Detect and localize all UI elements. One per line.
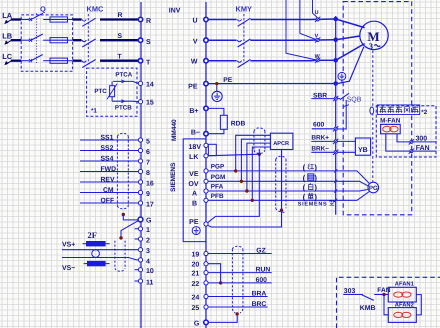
svg-text:SS1: SS1: [101, 135, 114, 142]
svg-text:LC: LC: [2, 52, 13, 61]
svg-text:19: 19: [192, 252, 200, 259]
svg-text:SBR: SBR: [313, 92, 327, 99]
svg-text:OV: OV: [188, 181, 198, 188]
svg-text:7: 7: [146, 159, 150, 166]
svg-text:PE: PE: [188, 84, 198, 91]
svg-text:2F: 2F: [88, 230, 97, 240]
svg-text:AFAN2: AFAN2: [395, 302, 414, 309]
svg-text:G: G: [146, 217, 152, 224]
svg-text:BRK+: BRK+: [311, 135, 329, 142]
svg-text:FAN: FAN: [377, 287, 390, 294]
svg-text:18V: 18V: [189, 144, 202, 151]
svg-text:): ): [314, 173, 317, 182]
svg-text:INV: INV: [169, 7, 181, 14]
svg-text:5: 5: [146, 138, 150, 145]
svg-text:PTCA: PTCA: [115, 72, 132, 79]
svg-text:): ): [314, 183, 317, 192]
svg-text:U: U: [192, 18, 197, 25]
svg-text:(: (: [303, 183, 306, 192]
svg-text:16: 16: [146, 180, 154, 187]
svg-text:W: W: [191, 59, 198, 66]
svg-text:LA: LA: [2, 11, 13, 20]
svg-text:RUN: RUN: [256, 267, 271, 274]
svg-text:15: 15: [146, 100, 154, 107]
svg-text:BRK−: BRK−: [311, 146, 329, 153]
svg-text:CM: CM: [103, 187, 114, 194]
svg-text:A: A: [192, 190, 197, 197]
svg-text:B−: B−: [191, 130, 200, 137]
svg-text:MM440: MM440: [171, 119, 178, 141]
svg-text:AFAN1: AFAN1: [395, 282, 415, 288]
svg-text:PTC: PTC: [94, 88, 107, 95]
svg-text:YB: YB: [358, 147, 368, 154]
svg-text:303: 303: [344, 288, 356, 295]
svg-text:*2: *2: [421, 109, 427, 116]
svg-text:300: 300: [416, 135, 428, 142]
svg-text:SIEMENS: SIEMENS: [170, 162, 177, 192]
svg-text:PGM: PGM: [211, 174, 226, 181]
svg-text:KMY: KMY: [236, 5, 252, 14]
svg-text:G: G: [194, 320, 200, 327]
svg-text:VS−: VS−: [62, 265, 75, 272]
svg-text:6: 6: [146, 149, 150, 156]
svg-text:): ): [314, 192, 317, 201]
svg-text:3: 3: [369, 41, 373, 51]
svg-text:(: (: [303, 163, 306, 172]
svg-text:3: 3: [146, 248, 150, 255]
svg-text:VE: VE: [189, 171, 199, 178]
svg-text:20: 20: [192, 262, 200, 269]
svg-text:VS+: VS+: [62, 242, 75, 249]
svg-text:14: 14: [146, 81, 154, 88]
svg-text:S: S: [146, 39, 151, 46]
svg-text:LK: LK: [189, 154, 198, 161]
svg-text:BRA: BRA: [252, 290, 267, 297]
svg-text:PG: PG: [369, 185, 378, 192]
svg-text:10: 10: [146, 268, 154, 275]
svg-text:PE: PE: [223, 77, 232, 84]
svg-text:PGP: PGP: [211, 163, 225, 170]
svg-text:25: 25: [192, 305, 200, 312]
svg-text:U: U: [315, 10, 319, 16]
svg-text:SQB: SQB: [347, 97, 362, 104]
svg-text:OFF: OFF: [101, 198, 115, 205]
svg-text:600: 600: [313, 122, 324, 129]
svg-text:S: S: [118, 33, 123, 40]
svg-text:(: (: [303, 173, 306, 182]
svg-text:B: B: [192, 200, 197, 207]
svg-text:PTCB: PTCB: [115, 105, 132, 112]
svg-text:Q: Q: [40, 5, 46, 14]
svg-text:22: 22: [192, 281, 200, 288]
svg-text:8: 8: [146, 170, 150, 177]
svg-text:V: V: [193, 38, 198, 45]
svg-text:2: 2: [146, 237, 150, 244]
svg-text:17: 17: [146, 201, 154, 208]
svg-text:24: 24: [192, 295, 200, 302]
svg-text:FAN: FAN: [416, 145, 430, 152]
svg-text:LB: LB: [2, 32, 12, 41]
svg-text:9: 9: [146, 191, 150, 198]
svg-text:T: T: [146, 59, 151, 66]
svg-text:11: 11: [146, 279, 154, 286]
svg-text:PE: PE: [189, 219, 199, 226]
svg-text:PFB: PFB: [211, 193, 224, 200]
svg-text:R: R: [118, 12, 123, 19]
svg-text:FWD: FWD: [101, 166, 117, 173]
svg-text:APCR: APCR: [273, 141, 289, 147]
svg-text:B+: B+: [189, 108, 198, 115]
svg-text:SS2: SS2: [101, 145, 114, 152]
svg-text:PFA: PFA: [211, 184, 224, 191]
svg-text:21: 21: [192, 271, 200, 278]
svg-text:KMB: KMB: [360, 305, 376, 312]
svg-text:(: (: [303, 192, 306, 201]
svg-text:W: W: [315, 54, 321, 60]
svg-text:*1: *1: [91, 108, 97, 115]
svg-text:M-FAN: M-FAN: [380, 118, 401, 125]
svg-text:REV: REV: [101, 177, 115, 184]
svg-text:): ): [314, 163, 317, 172]
svg-text:SS4: SS4: [101, 156, 114, 163]
svg-text:4: 4: [146, 258, 150, 265]
svg-text:R: R: [146, 18, 151, 25]
svg-text:KMC: KMC: [87, 5, 104, 14]
svg-text:SIEMENS: SIEMENS: [298, 201, 328, 207]
svg-text:1: 1: [146, 227, 150, 234]
svg-text:V: V: [315, 33, 319, 39]
svg-text:GZ: GZ: [256, 247, 265, 254]
svg-text:RDB: RDB: [231, 121, 246, 128]
svg-text:BRC: BRC: [252, 301, 267, 308]
svg-text:600: 600: [256, 277, 268, 284]
